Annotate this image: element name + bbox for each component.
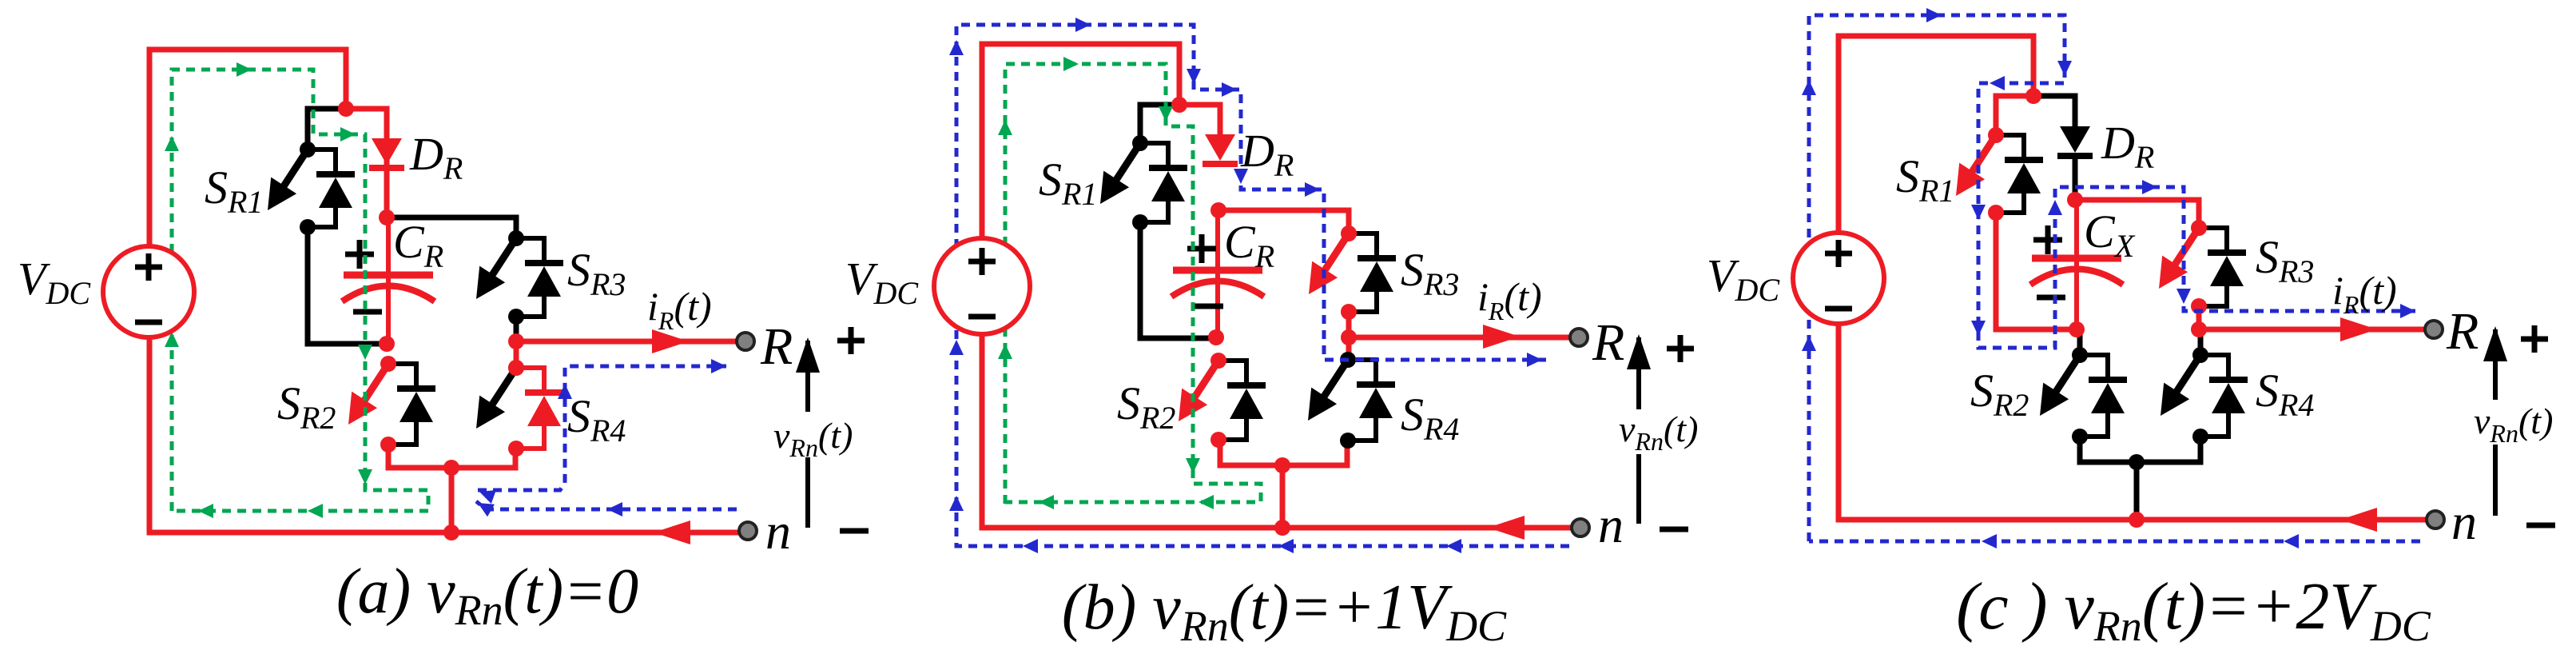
svg-text:n: n	[2451, 493, 2477, 550]
svg-text:R: R	[2446, 302, 2479, 361]
svg-text:iR(t): iR(t)	[647, 284, 712, 335]
svg-text:(c ) vRn(t)=+2VDC: (c ) vRn(t)=+2VDC	[1956, 569, 2431, 650]
svg-text:(b) vRn(t)=+1VDC: (b) vRn(t)=+1VDC	[1062, 572, 1507, 650]
svg-text:iR(t): iR(t)	[1477, 274, 1542, 325]
svg-text:iR(t): iR(t)	[2332, 268, 2397, 319]
svg-text:n: n	[1598, 497, 1624, 553]
svg-text:R: R	[760, 317, 793, 376]
svg-text:n: n	[765, 503, 791, 560]
svg-text:R: R	[1592, 313, 1624, 372]
